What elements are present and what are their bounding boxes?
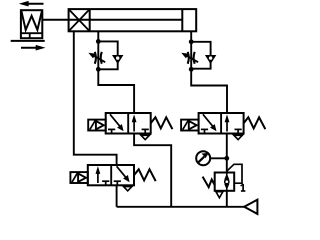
load device bottom arrow bbox=[21, 45, 46, 51]
regulator pilot loop bbox=[227, 164, 242, 183]
valve V3 right box diagonal arrow bbox=[117, 166, 130, 182]
valve V2 body bbox=[199, 113, 244, 134]
wire valve V2 to regulator bbox=[226, 134, 228, 173]
throttle F1 arcs bbox=[95, 52, 102, 64]
load device W top arrow bbox=[19, 1, 44, 7]
valve V1 body bbox=[106, 113, 151, 134]
valve V2 pilot box bbox=[181, 120, 199, 131]
valve V2 right box up arrow bbox=[225, 114, 230, 131]
wire cylinder left port to valve V3 bbox=[74, 31, 117, 165]
valve V3 right box blocked port T bbox=[114, 181, 121, 185]
wire F2 to valve V2 bbox=[191, 69, 227, 113]
W spring inside load box bbox=[21, 11, 42, 30]
valve V1 left box diagonal arrow bbox=[110, 114, 124, 131]
valve V3 exhaust triangle bbox=[124, 187, 132, 191]
flow control F1 bypass branch bbox=[98, 41, 117, 69]
valve V1 left box blocked port T bbox=[108, 129, 115, 133]
pressure gauge Z1 bbox=[196, 151, 210, 165]
node F2 top bbox=[189, 39, 194, 44]
valve V2 left box diagonal arrow bbox=[203, 114, 217, 131]
wire gauge to node bbox=[210, 157, 227, 159]
flow control F2 body line bbox=[190, 43, 192, 69]
cylinder X end box bbox=[69, 9, 90, 31]
flow control F1 body line bbox=[97, 43, 99, 70]
air supply source triangle bbox=[244, 200, 257, 214]
valve V1 spring bbox=[151, 117, 173, 129]
throttle F2 adjust arrow bbox=[181, 53, 198, 63]
valve V3 pilot box bbox=[70, 172, 87, 183]
valve V2 right box blocked port T bbox=[235, 129, 242, 133]
valve V2 spring bbox=[244, 117, 266, 129]
wire valve V3 to manifold bbox=[116, 185, 118, 207]
load device W box bbox=[21, 10, 42, 38]
throttle F1 adjust arrow bbox=[88, 53, 105, 63]
valve V3 spring bbox=[134, 169, 156, 181]
node gauge junction bbox=[224, 156, 229, 161]
wire cylinder right port to flow control F2 bbox=[190, 31, 192, 43]
load box inner shelf bbox=[21, 32, 42, 34]
check valve F2 bbox=[205, 55, 216, 64]
valve V3 left box blocked port T bbox=[102, 181, 109, 185]
cylinder A1 barrel bbox=[69, 9, 197, 31]
piston rod bbox=[42, 19, 183, 21]
load box shelf divider bbox=[29, 33, 31, 38]
load device base line bbox=[11, 40, 45, 42]
node F2 bottom bbox=[189, 67, 194, 72]
valve V1 right box blocked port T bbox=[142, 129, 149, 133]
wire F1 to valve V1 bbox=[98, 69, 134, 113]
valve V2 exhaust triangle bbox=[234, 135, 242, 139]
pressure regulator R1 box bbox=[215, 173, 235, 191]
valve V3 body bbox=[88, 165, 134, 185]
node F1 top bbox=[96, 39, 101, 44]
valve V1 pilot box bbox=[88, 120, 106, 131]
valve V1 exhaust triangle bbox=[141, 135, 149, 139]
label 1 bbox=[241, 184, 246, 191]
wire regulator to manifold bbox=[226, 191, 228, 207]
valve V2 left box blocked port T bbox=[201, 129, 208, 133]
flow control F2 bypass branch bbox=[191, 42, 210, 69]
wire cylinder mid port to flow control F1 bbox=[97, 31, 99, 43]
cylinder piston bbox=[181, 9, 183, 31]
regulator R1 spring bbox=[203, 177, 215, 188]
valve V1 right box up arrow bbox=[132, 114, 137, 131]
throttle F2 arcs bbox=[188, 52, 195, 64]
wire valve V1 to supply manifold bbox=[134, 134, 171, 207]
regulator R1 vent triangle bbox=[216, 192, 223, 198]
regulator R1 internal arrow bbox=[224, 173, 229, 191]
check valve F1 bbox=[112, 55, 123, 64]
supply manifold wire bbox=[117, 206, 245, 208]
node F1 bottom bbox=[96, 67, 101, 72]
valve V3 left box up arrow bbox=[96, 166, 101, 183]
